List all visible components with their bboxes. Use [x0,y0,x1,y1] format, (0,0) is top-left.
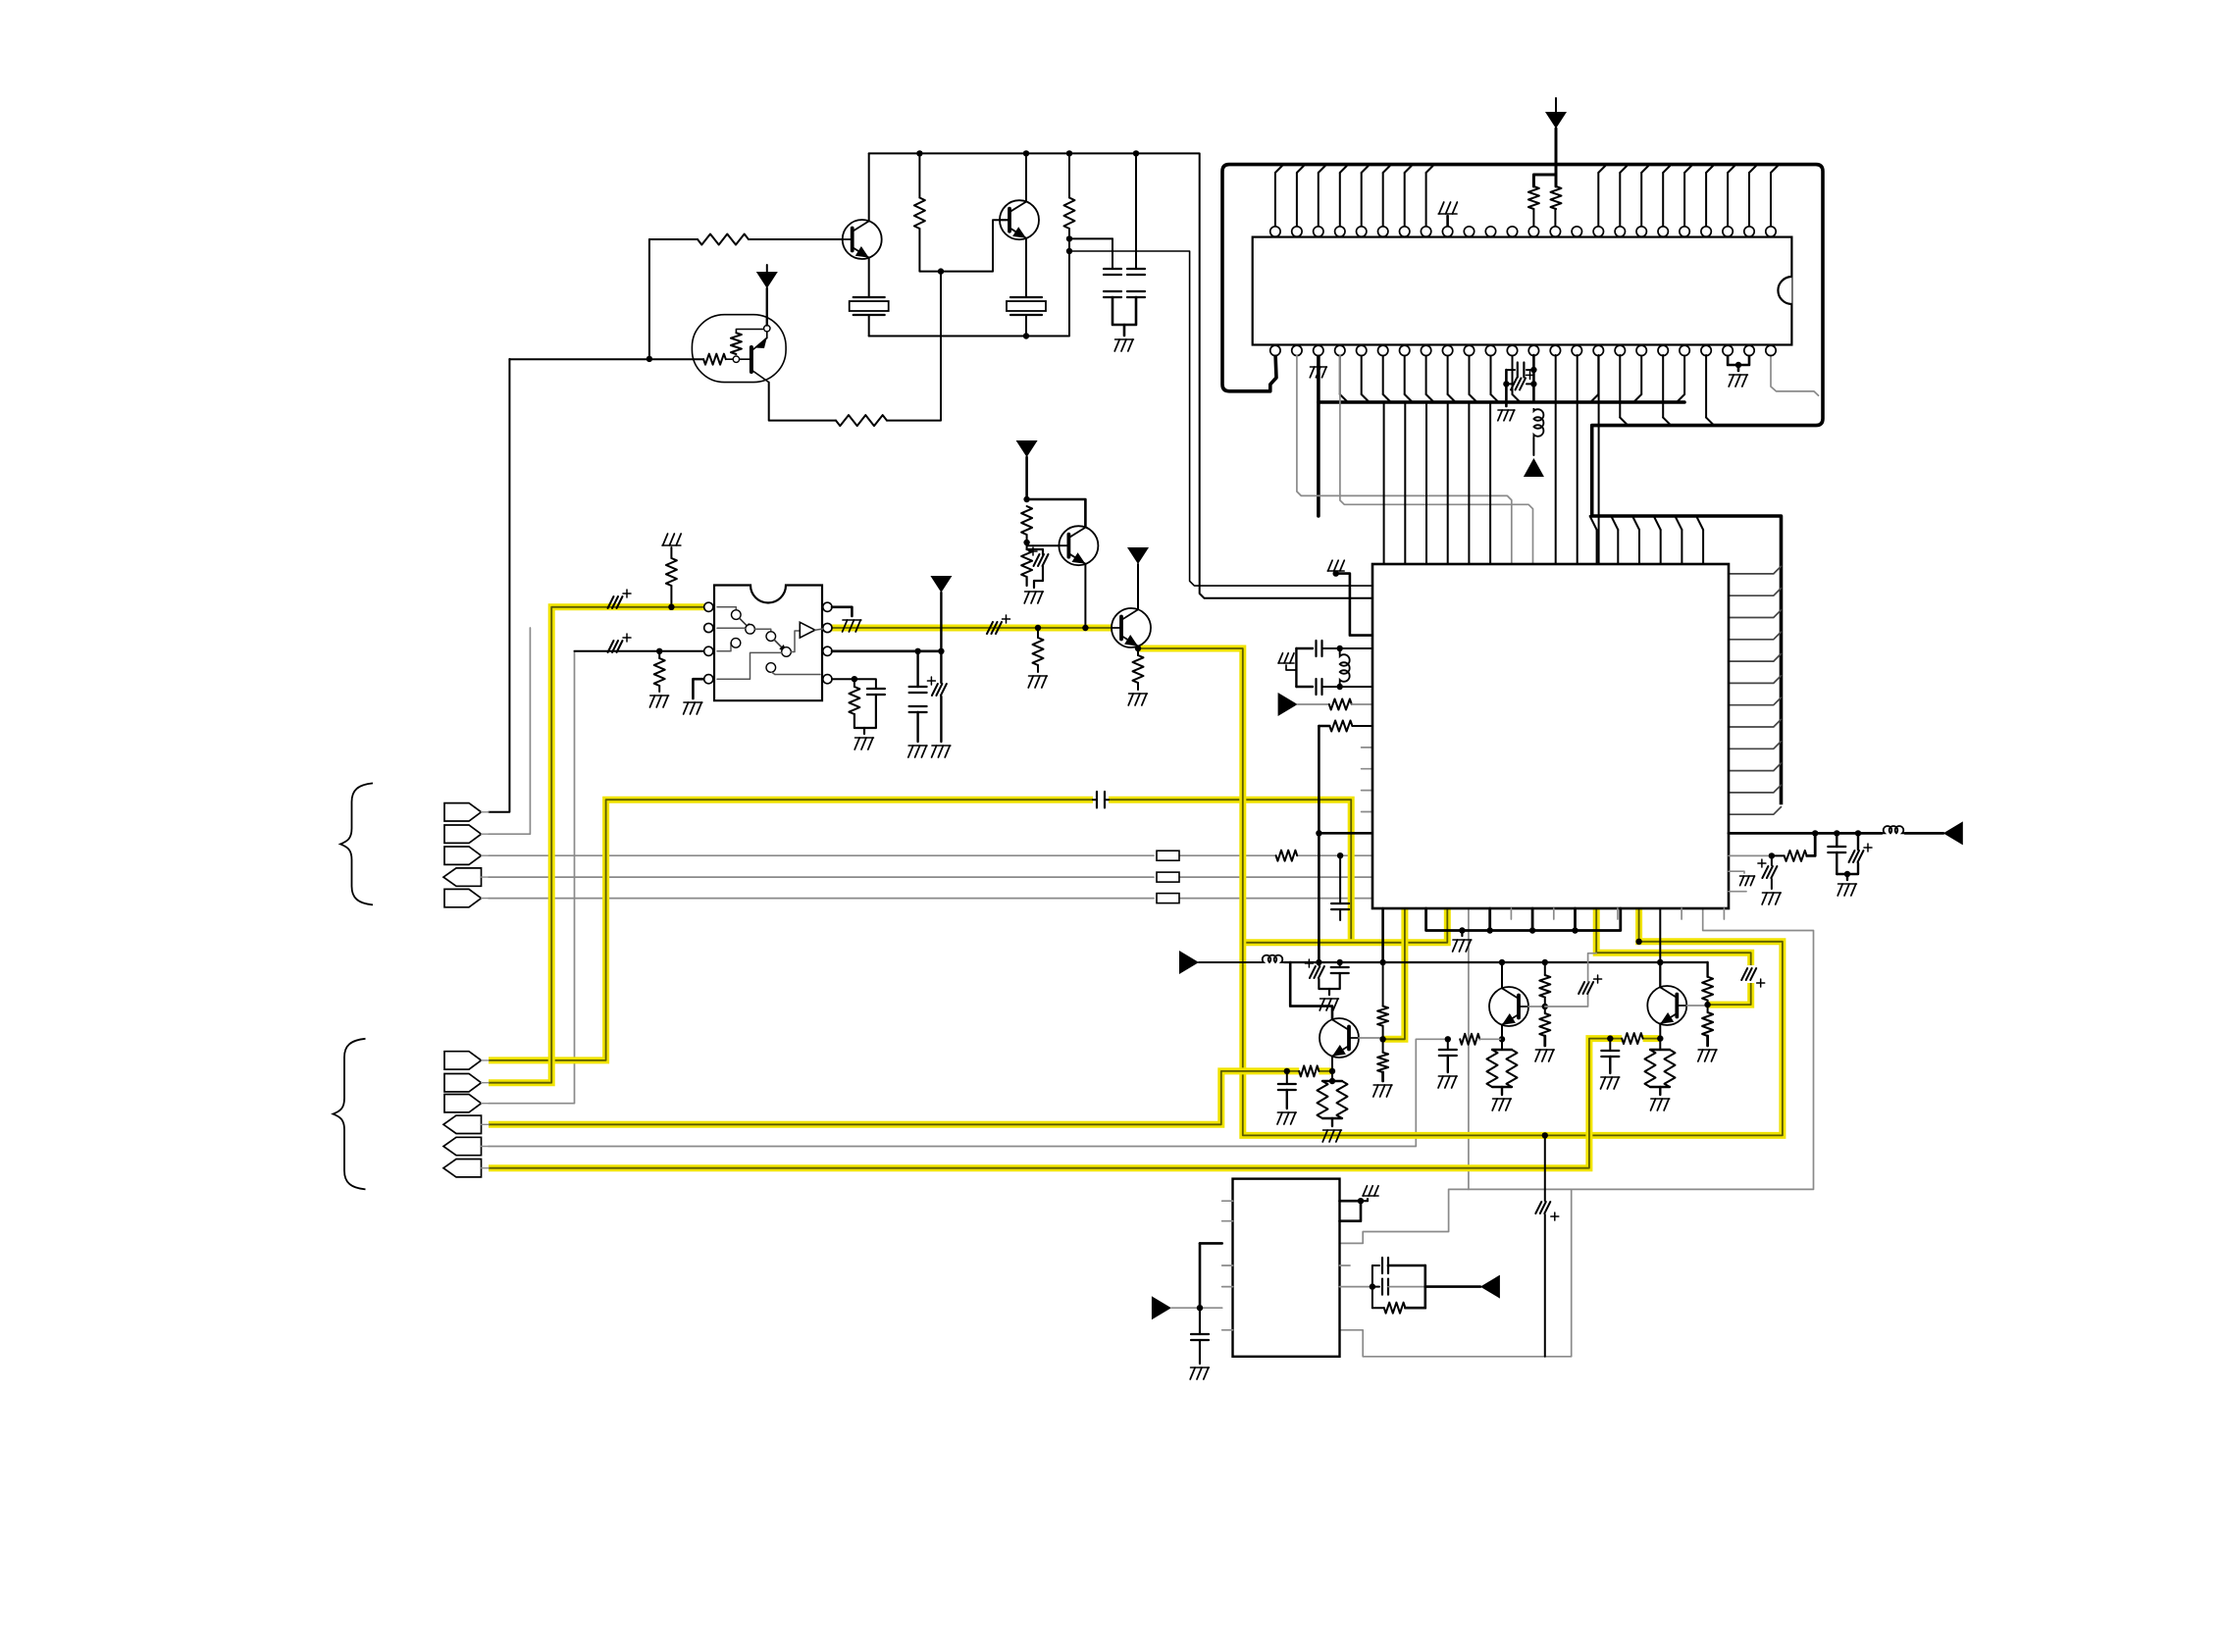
ground GND13 [1498,409,1515,411]
U4 right ground bracket [1340,1200,1362,1203]
junction [1023,150,1029,156]
resistor R24 divider upper [1544,962,1546,975]
transistor Q2 [1000,200,1039,239]
junction [1035,625,1041,631]
output arrow CN-B [1943,821,1963,845]
wire yellow net H lower [1708,983,1751,1005]
resistor R25 divider lower [1539,1013,1550,1036]
resistor R1 [698,234,749,245]
capacitor C20 in yellow net A [1093,799,1097,800]
ground GND7 [684,701,702,703]
op-amp U3 body [714,586,822,701]
transistor Q2 collector [1025,153,1027,201]
U2 top pins to thick bus lower edge [1596,530,1598,564]
output arrow CN-E [1480,1275,1500,1299]
junction [1133,150,1139,156]
resistor R26 input [1460,1034,1479,1045]
wire Q6 emitter [1331,1057,1333,1071]
brace upper connector group [340,783,373,904]
ground GND1 [1115,338,1134,340]
ground GND9 [908,745,927,747]
wire Q8 collector [1659,962,1661,987]
resistor R32 [1372,1307,1384,1309]
transistor Q6 collector path [1290,962,1332,1019]
ground GND30 on U1 pin drop [1310,366,1326,368]
resonator network left of U2: capacitor C12 [1296,647,1313,649]
wire thick vertical feed at U2 left [1318,726,1320,962]
ground GND15 [1762,892,1781,894]
resistor R7 [1021,506,1032,535]
ferrite beads FB1-FB3 [1157,851,1179,860]
connector flag E [443,1137,482,1155]
junction [1337,684,1343,690]
ground GND24 [1493,1098,1512,1100]
U3 internal switches [717,607,736,610]
resistor R28 chain [1706,962,1708,977]
ground GND26 [1601,1076,1620,1078]
connector flag D [443,1115,482,1133]
wire R7 to Q4 base [1027,535,1060,545]
wire Q1 emitter to crystal X1 [868,258,870,297]
gray staircase U1 to U2 b [1340,355,1533,564]
U1 pin circles top [1270,227,1280,236]
junction [1542,959,1548,965]
wire cap branch [1069,237,1112,239]
polarized capacitor C15 [1771,855,1773,865]
wire flag T1 to Q3 input [489,359,509,812]
connector flag T1 [444,803,482,821]
IC U2 body [1372,564,1729,908]
junction [1337,959,1343,965]
thick bus: U1 bottom pin diagonals [1339,355,1341,394]
polarized capacitor C6 [608,641,614,652]
U3 pin circles left [704,602,713,611]
wire oscillator supply rail [869,153,1372,597]
wire yellow net A (flag A to U2 pin via cap) [489,800,1093,1060]
ground GND28 [1191,1367,1210,1368]
U1 top pin leads with bends [1274,173,1276,232]
polarized capacitor C30 in yellow net H [1741,968,1747,980]
transistor Q3 package outline [692,315,786,383]
ground GND8 [843,619,861,621]
parallel resistor pair R23 [1331,1071,1333,1081]
resistor R9 [1133,655,1144,683]
power V2 triangle [1016,440,1038,457]
junction [1066,150,1072,156]
capacitor C1 stack [1112,238,1113,269]
RC bracket right [1424,1265,1427,1308]
junction [1135,645,1141,651]
transistor Q3 internal BJT [740,358,751,360]
wire yellow net F (flag F to Q8 emitter) [489,1039,1622,1168]
ground GND22 [1535,1049,1554,1051]
IC U4 body [1233,1179,1340,1357]
junction [1445,1036,1451,1042]
connector flag B [444,1074,482,1092]
polarized capacitor C5 on yellow net B [608,596,614,608]
ground GND18 [1453,939,1472,941]
ground GND12 [1730,374,1748,376]
wire yellow net G (U2 pin to Q6 base divider) [1383,908,1405,1039]
transistor Q7 [1489,987,1528,1026]
wire b13 collector feed [1659,908,1661,988]
junction [1066,248,1072,254]
ground GND21 [1323,1129,1342,1131]
junction [1529,927,1535,933]
ground GND27 [1651,1098,1670,1100]
junction [916,150,922,156]
connector flag A [444,1052,482,1069]
transistor Q6 [1319,1018,1359,1058]
transistor Q4 [1059,526,1098,565]
transistor Q8 [1647,986,1686,1025]
U3 pin circles right [823,602,832,611]
transistor Q7 collector [1501,962,1503,988]
wire Q5 emitter [1137,646,1139,655]
inductor L4 [1261,955,1284,962]
ground GND25 [1698,1049,1717,1051]
thick bus: manifold under U1 [1317,355,1320,516]
junction [938,648,944,654]
junction [1066,235,1072,241]
capacitor C9 [854,679,876,689]
junction [852,676,857,682]
capacitor C19 [1339,962,1341,967]
junction [1530,367,1536,373]
wire Q7 emitter [1501,1025,1503,1040]
junction [647,356,652,362]
resistor R13 [849,687,859,714]
junction [1337,645,1343,651]
junction [1607,1035,1613,1041]
thick bus: right-edge pin fan of U2 [1729,566,1782,574]
wire U2 row2 right with resistor R19 [1729,854,1772,856]
U4 left stub pins [1222,1200,1233,1202]
junction [1379,1036,1385,1042]
wire flag C to op-amp pin3 [489,651,575,1104]
connector flag T3 [444,847,482,864]
connector flag F [443,1160,482,1177]
capacitor C13 [1296,686,1313,688]
junction [1284,1068,1290,1074]
transistor Q1 [843,220,882,259]
wire oscillator bottom row [869,229,1069,336]
capacitor C24 [1609,1039,1611,1051]
junction [1657,959,1663,965]
capacitor C23 [1447,1039,1449,1050]
junction [1082,625,1088,631]
capacitor C27 [1372,1265,1379,1266]
junction [1337,852,1343,858]
U1 pin circles bottom [1270,345,1280,355]
inductor L1 [1533,408,1543,438]
junction [1530,381,1536,387]
junction [1855,830,1861,836]
connector flag T2 [444,825,482,843]
power V4 triangle [930,576,952,593]
connector flag T5 [444,889,482,906]
input arrow CN-A [1278,693,1298,716]
junction [1023,333,1029,338]
power V6 triangle (up) [1524,458,1544,477]
junction [1735,362,1741,368]
junction [1542,1004,1548,1009]
ground GND14 at U2 top-left [1327,570,1344,572]
junction [1316,959,1321,965]
junction [668,604,674,610]
U3 internal lower switch contact [775,674,820,676]
junction [1657,1035,1663,1041]
resistor R21 [1377,1053,1388,1072]
ground GND3 [1129,693,1148,695]
junction [1023,496,1029,502]
capacitor C21 [1286,1071,1288,1084]
junction [914,648,920,654]
ground GND19 [1373,1084,1392,1086]
U2 top pin verticals to manifold [1383,402,1385,564]
wire oscillator inner feed [1069,251,1372,586]
input arrow CN-C [1179,951,1199,974]
polarized capacitor C4 on yellow net C [987,622,993,634]
U1 orientation notch [1778,277,1791,304]
wire net T4 bus [489,876,1154,878]
wire yellow net D (Q5 emitter loop) [1138,648,1783,1135]
resistor R30 on yellow net F [1622,1033,1642,1044]
wire Q8 emitter [1659,1024,1661,1039]
polarized capacitor C3 [1034,554,1040,566]
gray staircase U1 to U2 a [1297,355,1512,564]
thick bus: U1 bottom pin diagonals right [1597,355,1599,394]
wire U3 pin4 right network [832,679,854,687]
resistor R14 at U1 top [1528,186,1539,209]
input arrow CN-D [1152,1296,1171,1319]
U2 left stub pins [1362,747,1372,749]
wire V2 to Q4 collector [1027,499,1086,528]
capacitor C10 / C11 ladder under U1 [1532,355,1535,402]
U2 right lower pin to ground [1729,871,1744,873]
U1 pin23 gray elbow [1771,351,1819,396]
junction [1542,1132,1548,1138]
wire Q1 collector [868,153,870,221]
polarized capacitor C25 [1535,1202,1541,1213]
ground GND29 (up) [1363,1195,1378,1197]
ground GND16 [1838,883,1857,885]
resistor R15 at U1 top [1551,186,1562,209]
junction [1329,1068,1335,1074]
U1 bottom-right ground bracket [1728,351,1749,366]
resistor R8 [1026,545,1028,549]
junction [1499,959,1505,965]
resistor R16 [1329,699,1352,710]
brace lower connector group [334,1039,366,1190]
wire vertical flagT1 riser link [648,239,650,359]
junction [656,648,662,654]
wire net T3 bus [489,854,1154,856]
connector flag T4 [443,868,482,886]
junction [1499,1036,1505,1042]
wire R6 to oscillator feedback [887,272,941,421]
wire Q7 base to divider [1528,1006,1545,1007]
parallel resistor pair R31 [1659,1039,1661,1050]
wire yellow net A continued [1109,800,1351,943]
junction [1333,570,1339,576]
wire IC3 pin3 to U2 long return [1341,908,1814,1243]
wire yellow net H (U2 pin to Q8 base) [1596,908,1751,965]
wire Q3 collector out [751,370,769,383]
transistor Q5 [1112,608,1151,647]
wire yellow net A to U2 bottom pin [1243,908,1448,943]
wire ecap drop from yellow junction [1544,1135,1546,1201]
wire op-amp pin4 to ground [693,679,708,698]
U2 bottom ground manifold (thick) [1426,908,1621,931]
wire flag E to Q7 emitter network [489,1039,1448,1146]
wire Q8 base [1686,1005,1707,1007]
U3 internal buffer triangle [800,622,815,638]
power V1 triangle [756,272,778,288]
inductor L2 [1340,653,1350,683]
ground GND4 [1029,675,1048,677]
wire Q4 emitter to yellow net C [1084,564,1086,628]
junction [938,268,944,274]
junction [1834,830,1839,836]
polarized capacitor C8 [932,684,938,696]
resistor R17 [1319,725,1329,728]
wire yellow net E tail [1319,1067,1332,1074]
crystal X1 [854,296,885,298]
wire R2 to Q2 base [919,220,1009,271]
wire U4 pin3 loop [1200,1242,1222,1245]
resistor R4 (Q3 internal base) [703,354,726,365]
resonator bracket and ground [1295,648,1297,687]
wire U3 pin1 right to ground [832,607,852,616]
capacitor C2 stack [1135,153,1137,269]
ground GND20 [1277,1111,1296,1113]
ground GND10 [932,745,951,747]
junction [1657,959,1663,965]
long verticals U1 to U2 [1555,355,1557,564]
wire flag T2 to op-amp pin2 [489,628,530,834]
wire Q3 input [509,358,703,360]
junction [1316,830,1321,836]
wire thick row into U2 [1319,832,1372,835]
U4 pin7L stub [1222,1329,1233,1331]
resistor R5 (Q3 internal pull) [731,333,742,354]
junction [1197,1305,1203,1311]
wire Q6 base from divider [1359,1037,1383,1039]
wire yellow net E (flag D to Q6 emitter) [489,1071,1299,1124]
ground GND6 [650,695,669,697]
polarized capacitor C11 [1506,383,1514,385]
U1 DIP body [1253,237,1792,345]
junction [1572,927,1578,933]
wire Q3 emitter to supply [766,288,768,326]
polarized capacitor C18 below rail [1318,962,1319,965]
resistor R29 [1702,1012,1713,1036]
power V5 triangle above U1 [1555,129,1558,175]
resistor R3 [1064,198,1075,230]
polarized capacitor C22 to base net [1545,994,1588,1007]
power V3 triangle [1127,547,1149,564]
U2 bottom misc stubs [1510,908,1512,919]
wire yellow net C (op-amp pin2 to Q5 base) [827,625,1112,632]
wire yellow net B (flag B to op-amp pin1) [489,607,708,1083]
connector flag C [444,1095,482,1112]
resistor R20 chain from U2 pin [1381,908,1384,962]
ground GND11 [855,737,874,739]
parallel resistor pair R27 [1501,1039,1503,1050]
junction [1769,852,1775,858]
thick bus: left/top/right loop [1222,165,1823,805]
capacitor C7 stack [916,651,918,687]
junction [1379,959,1385,965]
junction [1812,830,1818,836]
junction [1503,381,1509,387]
wire net T5 bus [489,898,1154,900]
resistor R18 on T3 row [1276,851,1298,861]
wire IC3 lower staircase [1341,1189,1572,1356]
U4 right gray stubs [1340,1265,1351,1266]
wire main lower rail [1284,961,1708,963]
U1 bottom pins to loop bottom edge [1619,355,1621,418]
wire U3 pin3 right network [832,649,941,652]
polarized capacitor C17 [1857,833,1859,850]
capacitor C28 [1372,1286,1379,1288]
junction [1844,871,1850,877]
ground GND2 [1025,591,1044,593]
ground GND5 (up) [662,544,681,546]
junction [1329,1078,1335,1084]
crystal X2 [1010,296,1042,298]
wire yellow net F tail [1643,1035,1661,1042]
junction [1704,1002,1710,1007]
junction [1358,1198,1364,1204]
wire Q1 base row [649,238,698,240]
wire op-amp pin3 input [575,650,709,652]
wire caps to ground [1112,297,1136,325]
ground GND23 [1438,1075,1457,1077]
junction [1023,540,1029,545]
resistor R22 on yellow net E [1299,1065,1319,1076]
wire U2 output row (thick) [1729,832,1882,835]
junction [1635,939,1641,945]
ground GND17 [1320,998,1339,1000]
U2 right lowest stub [1729,891,1746,893]
wire U2 bottom gray drop b4 [1468,908,1470,1189]
inductor L3 [1882,826,1905,833]
capacitor C16 [1836,833,1837,847]
wire Q2 emitter to crystal X2 [1025,238,1027,297]
junction [1459,927,1465,933]
capacitor C26 [1199,1308,1201,1334]
resistor R6 [836,415,887,426]
resistor R2 [918,153,920,197]
U1 pin9 ground (up) [1446,216,1449,232]
capacitor C14 [1331,903,1349,904]
junction [1487,927,1493,933]
junction [1370,1283,1375,1289]
U4 RC network: bracket [1340,1286,1372,1288]
